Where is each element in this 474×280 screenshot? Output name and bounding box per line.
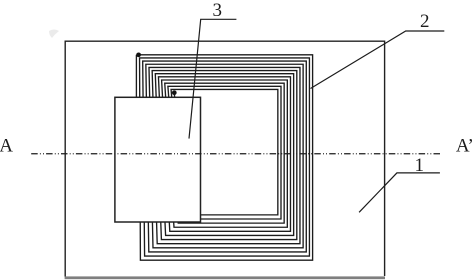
substrate rectangle 1 (left, top, right edges) <box>65 41 384 276</box>
svg-text:2: 2 <box>420 11 430 32</box>
centerline A-A' (dash-dot-dot) <box>31 153 440 155</box>
leader line 3 <box>189 19 236 138</box>
antenna coil 2 (rectangular spiral, 12 turns) <box>136 55 312 260</box>
substrate bottom edge (thick gray) <box>65 276 385 279</box>
leader line 1 <box>359 173 440 212</box>
svg-text:A: A <box>0 136 13 157</box>
coil outer terminal dot <box>136 52 141 57</box>
svg-text:A’: A’ <box>456 136 474 157</box>
chip rectangle 3 (white fill covers coil) <box>115 97 201 222</box>
coil inner terminal dot <box>172 90 177 95</box>
coil outer terminal stub wire <box>135 55 137 99</box>
svg-text:1: 1 <box>415 155 425 176</box>
scan smudge artifact <box>49 30 59 39</box>
leader line 2 <box>311 31 445 89</box>
svg-text:3: 3 <box>212 0 222 21</box>
